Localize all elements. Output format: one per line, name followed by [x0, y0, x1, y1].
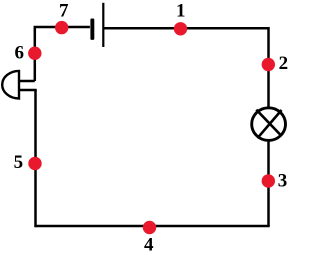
- svg-text:4: 4: [144, 235, 154, 256]
- node 2: [262, 58, 275, 71]
- buzzer (electric bell): [2, 71, 37, 99]
- svg-text:5: 5: [14, 152, 24, 173]
- wire left from bottom-left corner up to buzzer bottom terminal: [34, 90, 37, 227]
- node 4: [143, 221, 156, 234]
- wire bottom from bottom-right corner to bottom-left corner: [36, 225, 270, 228]
- battery cell B1: [90, 3, 104, 47]
- node 1: [174, 22, 187, 35]
- node 7: [55, 21, 68, 34]
- wire from battery negative to top-left corner and down to buzzer top terminal: [35, 27, 90, 81]
- lamp L1: [252, 108, 286, 141]
- node 6: [28, 47, 41, 60]
- node 3: [262, 174, 275, 187]
- wire from battery positive across top to top-right corner and down to lamp: [104, 28, 269, 107]
- svg-text:1: 1: [176, 0, 186, 21]
- wire from lamp bottom down to bottom-right corner: [267, 141, 270, 227]
- svg-text:2: 2: [279, 53, 289, 74]
- svg-text:3: 3: [278, 171, 288, 192]
- svg-text:6: 6: [15, 43, 25, 64]
- svg-text:7: 7: [59, 1, 69, 22]
- node 5: [28, 157, 41, 170]
